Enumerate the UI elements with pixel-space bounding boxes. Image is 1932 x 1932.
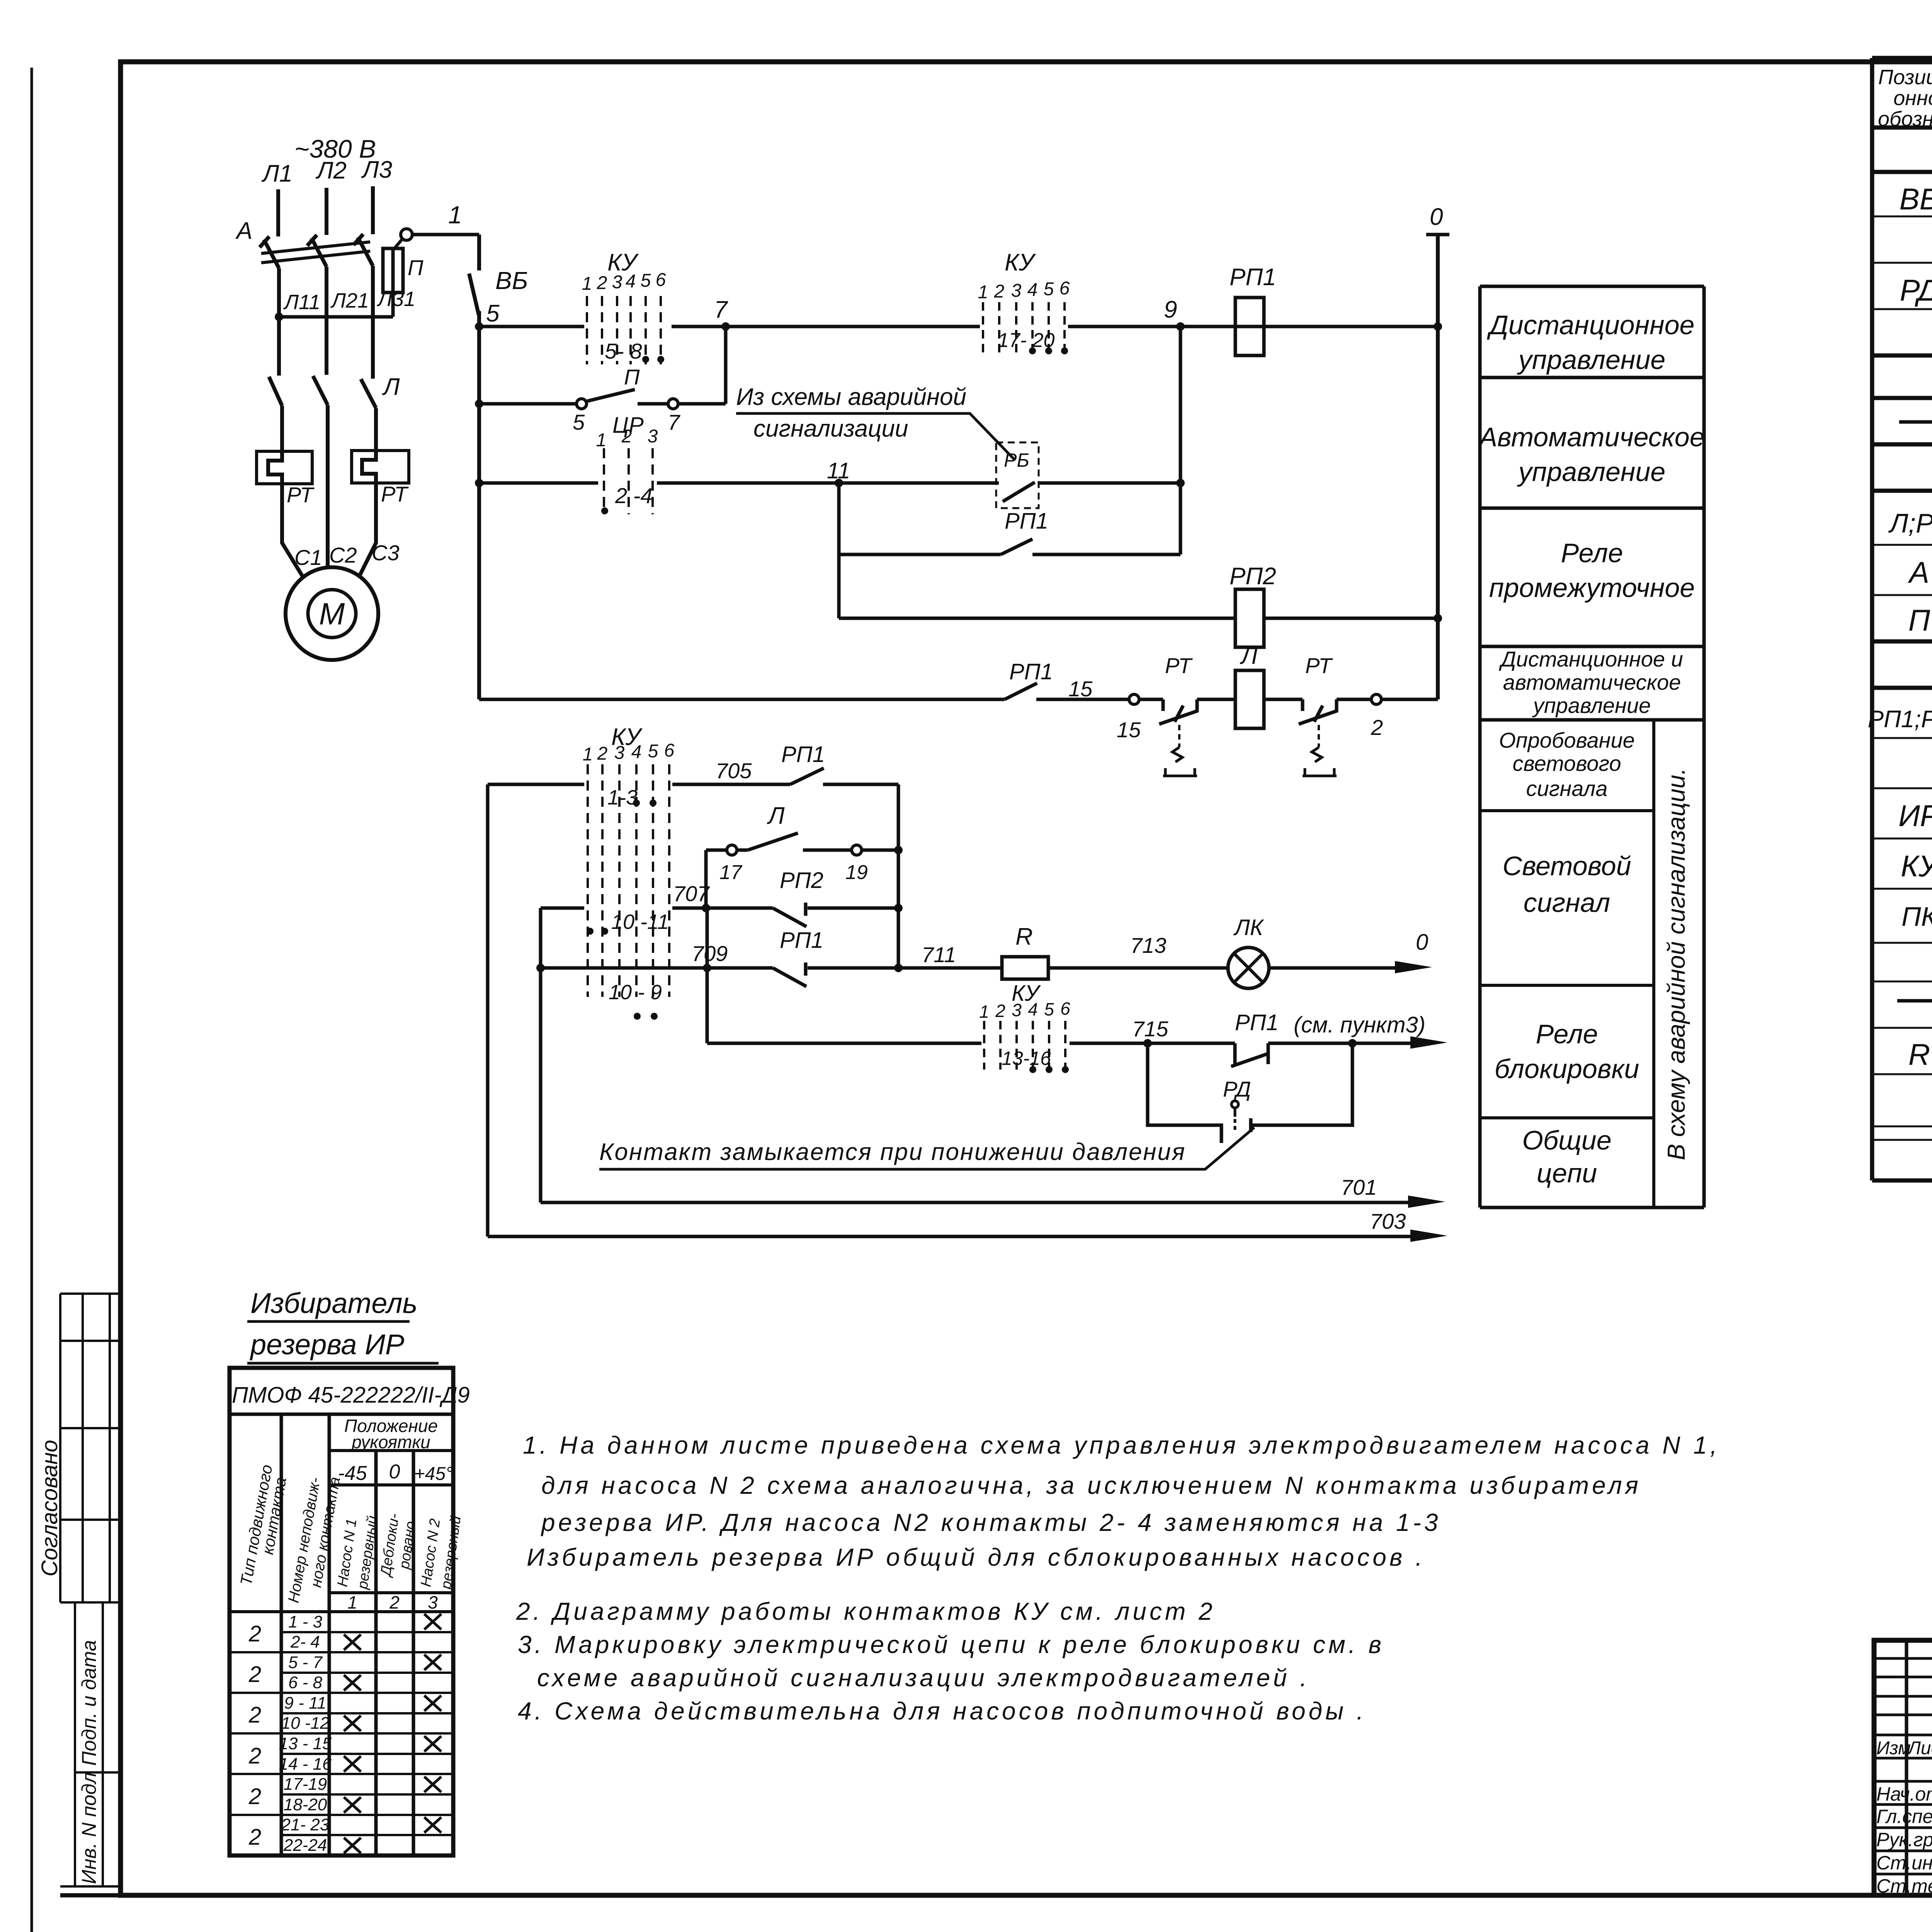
svg-text:6: 6: [1060, 278, 1070, 299]
svg-text:1: 1: [448, 201, 462, 229]
svg-text:ВБ: ВБ: [495, 267, 528, 294]
svg-text:Избиратель: Избиратель: [250, 1287, 418, 1319]
svg-text:0: 0: [1430, 204, 1443, 230]
svg-text:РТ: РТ: [1165, 653, 1193, 678]
svg-text:А: А: [1908, 555, 1929, 589]
svg-text:А: А: [235, 218, 252, 244]
RP1 selfhold row: [839, 553, 1180, 556]
node row1 right: [1434, 322, 1442, 331]
svg-text:(см. пункт3): (см. пункт3): [1294, 1012, 1425, 1037]
svg-text:РП2: РП2: [1230, 563, 1276, 590]
svg-text:Л2: Л2: [315, 157, 347, 184]
svg-text:709: 709: [692, 941, 728, 966]
svg-text:резерва ИР. Для насоса N2: резерва ИР. Для насоса N2 контакты 2- 4 …: [541, 1509, 1441, 1536]
svg-text:2: 2: [597, 743, 608, 764]
function label column: [1480, 286, 1704, 1207]
svg-text:6: 6: [1060, 998, 1070, 1019]
RP2 coil row: [839, 617, 1438, 620]
svg-text:3: 3: [612, 272, 622, 293]
svg-text:КУ: КУ: [1901, 849, 1932, 883]
svg-text:2: 2: [1371, 715, 1383, 740]
svg-text:4. Схема действительна для: 4. Схема действительна для насосов подпи…: [518, 1697, 1367, 1725]
svg-text:15: 15: [1068, 677, 1093, 701]
wires below contactor: [282, 405, 376, 567]
svg-text:5: 5: [648, 741, 658, 762]
svg-text:2: 2: [389, 1592, 400, 1612]
node L11: [275, 313, 283, 321]
svg-text:РД: РД: [1900, 273, 1932, 307]
svg-text:3. Маркировку электрической: 3. Маркировку электрической цепи к реле …: [518, 1631, 1384, 1658]
svg-text:Избиратель резерва ИР общий: Избиратель резерва ИР общий для сблокиро…: [527, 1543, 1425, 1571]
IR selector table grid: [230, 1368, 453, 1855]
wire to VB: [412, 233, 479, 236]
svg-text:703: 703: [1370, 1209, 1406, 1233]
motor M: [286, 567, 378, 660]
svg-text:3: 3: [1011, 281, 1022, 301]
svg-text:705: 705: [716, 759, 752, 783]
left margin: soglasovano grid: [60, 1294, 121, 1602]
svg-text:1: 1: [978, 282, 988, 303]
RP1 contact in 705 row: [790, 768, 824, 784]
left vertical bus 1: [486, 784, 490, 1236]
wire row 715: [707, 1042, 1414, 1045]
wire row3 (CR): [479, 481, 1180, 485]
svg-text:1: 1: [582, 274, 592, 294]
thermal element RT 1: [257, 451, 312, 484]
svg-text:ИР: ИР: [1898, 799, 1932, 833]
svg-text:Согласовано: Согласовано: [37, 1440, 62, 1577]
contactor L blades: [269, 376, 376, 408]
L contact blade: [748, 833, 798, 850]
svg-text:Световой: Световой: [1502, 851, 1631, 881]
L/RT control row: [479, 698, 1235, 701]
svg-text:Дистанционное: Дистанционное: [1487, 310, 1695, 340]
svg-text:7: 7: [714, 296, 728, 323]
svg-text:2- 4: 2- 4: [290, 1633, 320, 1651]
title block grid: [1874, 1640, 1932, 1897]
svg-text:П: П: [1908, 603, 1930, 637]
svg-text:5: 5: [641, 270, 651, 291]
svg-text:+45°: +45°: [414, 1464, 453, 1484]
svg-text:17: 17: [719, 861, 743, 884]
svg-text:1: 1: [583, 744, 593, 765]
wire row1: [479, 325, 1438, 328]
svg-text:Ст.техн.: Ст.техн.: [1876, 1875, 1932, 1897]
svg-text:9 - 11: 9 - 11: [284, 1694, 326, 1713]
svg-text:2: 2: [248, 1662, 261, 1687]
svg-text:управление: управление: [1517, 457, 1665, 487]
svg-text:6 - 8: 6 - 8: [288, 1673, 323, 1692]
svg-text:2: 2: [248, 1702, 261, 1728]
svg-text:4: 4: [631, 742, 642, 762]
svg-text:автоматическое: автоматическое: [1503, 670, 1681, 694]
svg-text:5 - 7: 5 - 7: [288, 1653, 323, 1672]
svg-text:РТ: РТ: [287, 483, 315, 507]
wire to 0 arrow: [1269, 966, 1403, 970]
svg-text:ВБ: ВБ: [1900, 182, 1932, 216]
svg-text:2. Диаграмму работы контакто: 2. Диаграмму работы контактов КУ см. лис…: [516, 1597, 1216, 1625]
terminal circle 1: [401, 229, 412, 240]
svg-text:РП1: РП1: [780, 928, 823, 953]
svg-text:17- 20: 17- 20: [998, 329, 1055, 352]
svg-text:Л11: Л11: [283, 291, 320, 314]
svg-text:Л: Л: [382, 374, 400, 400]
svg-text:13-16: 13-16: [1002, 1048, 1051, 1069]
svg-text:Опробование: Опробование: [1499, 728, 1635, 752]
svg-text:1: 1: [347, 1592, 357, 1612]
svg-text:С2: С2: [329, 543, 357, 567]
svg-text:715: 715: [1132, 1017, 1168, 1041]
svg-text:ПК: ПК: [1901, 901, 1932, 932]
svg-text:С1: С1: [294, 545, 322, 570]
svg-text:1 - 3: 1 - 3: [288, 1612, 323, 1631]
svg-text:17-19: 17-19: [284, 1775, 327, 1794]
RP1 break contact in 709 row: [773, 963, 806, 986]
svg-text:5: 5: [573, 410, 585, 434]
svg-text:РТ: РТ: [1305, 653, 1333, 678]
svg-text:701: 701: [1341, 1175, 1377, 1199]
svg-text:7: 7: [668, 410, 680, 434]
node 5: [475, 322, 483, 331]
svg-text:РП1: РП1: [1230, 264, 1276, 291]
svg-text:3: 3: [648, 426, 658, 447]
svg-text:РП1: РП1: [1235, 1010, 1279, 1035]
svg-text:2: 2: [995, 1001, 1005, 1021]
wire row 703: [488, 1235, 1413, 1238]
svg-text:Контакт замыкается при пониж: Контакт замыкается при понижении давлени…: [599, 1139, 1186, 1165]
svg-text:рукоятки: рукоятки: [351, 1432, 430, 1452]
svg-text:713: 713: [1130, 933, 1166, 957]
svg-text:В схему аварийной сигнализации: В схему аварийной сигнализации.: [1662, 768, 1690, 1160]
svg-text:10 - 9: 10 - 9: [609, 981, 662, 1004]
svg-text:схеме аварийной сигнализации: схеме аварийной сигнализации электродвиг…: [537, 1664, 1310, 1692]
svg-text:2: 2: [248, 1743, 261, 1769]
node on vertical 9: [1176, 479, 1185, 487]
svg-text:промежуточное: промежуточное: [1489, 573, 1695, 603]
contact P blade: [587, 389, 635, 401]
left margin: inv/podp block: [60, 1602, 121, 1895]
svg-text:14 - 16: 14 - 16: [279, 1755, 332, 1774]
svg-text:13 - 15: 13 - 15: [279, 1734, 332, 1753]
svg-text:Дистанционное и: Дистанционное и: [1498, 647, 1683, 671]
svg-text:Лист.: Лист.: [1907, 1738, 1932, 1759]
svg-text:5- 8: 5- 8: [605, 339, 642, 363]
fuse P: [391, 247, 395, 317]
svg-text:707: 707: [673, 881, 710, 906]
svg-text:Л21: Л21: [330, 289, 369, 312]
svg-text:РБ: РБ: [1004, 449, 1029, 471]
svg-text:2: 2: [597, 273, 607, 293]
svg-text:управление: управление: [1532, 693, 1651, 718]
svg-text:сигнализации: сигнализации: [753, 415, 908, 442]
wire row 707: [541, 906, 898, 910]
svg-text:6: 6: [656, 270, 666, 290]
svg-text:резерва ИР: резерва ИР: [250, 1328, 404, 1361]
wire row L 17-19: [706, 849, 898, 852]
svg-text:1-3: 1-3: [607, 786, 638, 809]
svg-text:П: П: [408, 255, 423, 280]
svg-text:10 -11: 10 -11: [611, 910, 669, 934]
wires to motor: [282, 483, 376, 579]
svg-text:Л: Л: [767, 803, 785, 829]
svg-text:Автоматическое: Автоматическое: [1478, 422, 1704, 452]
svg-text:2: 2: [994, 281, 1005, 302]
svg-text:2: 2: [248, 1621, 261, 1646]
svg-text:РП1;РП2: РП1;РП2: [1868, 706, 1932, 733]
svg-text:РД: РД: [1223, 1077, 1251, 1101]
svg-text:Нач.отд: Нач.отд: [1876, 1783, 1932, 1805]
svg-text:Позици-: Позици-: [1878, 66, 1932, 89]
svg-text:Л;РТ: Л;РТ: [1888, 508, 1932, 538]
svg-text:5: 5: [1044, 279, 1054, 299]
svg-text:С3: С3: [372, 541, 400, 565]
svg-text:2: 2: [621, 426, 632, 447]
svg-text:9: 9: [1164, 296, 1177, 323]
svg-text:управление: управление: [1517, 345, 1665, 375]
terminal circle 2: [1371, 694, 1381, 704]
wire row 701: [541, 1201, 1410, 1204]
svg-text:0: 0: [389, 1461, 400, 1483]
relay RB contact (dashed box): [996, 442, 1039, 508]
svg-text:сигнала: сигнала: [1526, 776, 1608, 801]
svg-text:РП1: РП1: [781, 742, 825, 767]
svg-text:РТ: РТ: [381, 482, 409, 506]
svg-text:цепи: цепи: [1537, 1158, 1597, 1188]
svg-text:21- 23: 21- 23: [281, 1815, 330, 1834]
terminal circle 15: [1129, 694, 1139, 704]
svg-text:онное: онное: [1893, 87, 1932, 110]
svg-text:Инв. N подл: Инв. N подл: [78, 1772, 100, 1884]
svg-text:Реле: Реле: [1561, 538, 1623, 568]
svg-text:711: 711: [922, 942, 956, 967]
svg-text:18-20: 18-20: [284, 1795, 327, 1814]
svg-text:1. На данном листе приведен: 1. На данном листе приведена схема управ…: [523, 1431, 1720, 1459]
svg-text:0: 0: [1416, 930, 1428, 955]
svg-text:Из схемы аварийной: Из схемы аварийной: [736, 384, 966, 410]
svg-text:15: 15: [1117, 718, 1141, 742]
svg-text:Реле: Реле: [1536, 1019, 1598, 1049]
right specification table grid: [1872, 58, 1932, 1180]
RD bypass branch: [1148, 1043, 1221, 1143]
svg-text:блокировки: блокировки: [1495, 1054, 1639, 1084]
svg-text:ПМОФ 45-222222/II-Д9: ПМОФ 45-222222/II-Д9: [232, 1383, 470, 1408]
left vertical bus 2: [539, 908, 543, 1202]
svg-text:Л1: Л1: [261, 160, 293, 187]
svg-text:РП1: РП1: [1005, 509, 1048, 534]
right vertical of 705 loop: [897, 784, 900, 968]
wire row2 (P contact): [479, 402, 726, 406]
svg-text:1: 1: [596, 430, 607, 451]
svg-text:4: 4: [1028, 999, 1038, 1019]
node row2: [475, 400, 483, 408]
svg-text:5: 5: [1044, 999, 1054, 1019]
svg-text:Изм: Изм: [1876, 1738, 1911, 1759]
svg-text:РП1: РП1: [1009, 659, 1053, 684]
svg-text:2 -4: 2 -4: [615, 483, 653, 508]
svg-text:П: П: [624, 365, 640, 389]
svg-text:Рук.гр.: Рук.гр.: [1876, 1829, 1932, 1850]
svg-text:для насоса N 2 схема анало: для насоса N 2 схема аналогична, за искл…: [541, 1471, 1641, 1499]
svg-text:Подп. и дата: Подп. и дата: [78, 1640, 100, 1766]
RP2 break contact: [773, 903, 806, 927]
vertical 707-715: [706, 908, 709, 1043]
svg-text:светового: светового: [1513, 751, 1621, 776]
svg-text:19: 19: [845, 861, 868, 884]
breaker A crossbar: [261, 242, 370, 263]
svg-text:22-24: 22-24: [283, 1836, 327, 1855]
svg-text:5: 5: [486, 300, 500, 327]
RP1 contact in L row: [1005, 683, 1037, 699]
svg-text:ЛК: ЛК: [1233, 915, 1264, 940]
svg-text:обознач.: обознач.: [1878, 107, 1932, 131]
svg-text:Гл.спец.: Гл.спец.: [1876, 1806, 1932, 1827]
wire: three phase stubs: [278, 186, 373, 236]
wire row 705: [488, 783, 898, 786]
wire L11-L31 to fuse: [279, 315, 393, 319]
svg-text:3: 3: [614, 743, 625, 763]
sheet outer thin left edge line: [31, 68, 33, 1932]
thermal element RT 2: [352, 451, 409, 483]
svg-text:4: 4: [1027, 280, 1038, 300]
svg-text:Л: Л: [1240, 643, 1258, 669]
svg-text:1: 1: [979, 1002, 989, 1022]
svg-text:РП2: РП2: [780, 868, 823, 893]
breaker A poles: [260, 234, 373, 268]
svg-text:4: 4: [626, 271, 636, 292]
switch VB: [477, 235, 481, 270]
svg-text:R: R: [1908, 1037, 1930, 1071]
wire row 709 / 711: [541, 966, 1228, 970]
main control bus: [477, 311, 481, 699]
svg-text:сигнал: сигнал: [1524, 888, 1611, 918]
svg-text:6: 6: [664, 740, 675, 761]
svg-text:М: М: [319, 597, 345, 631]
svg-text:R: R: [1015, 923, 1033, 950]
svg-text:2: 2: [248, 1784, 261, 1809]
svg-text:3: 3: [428, 1592, 438, 1612]
svg-text:КУ: КУ: [1005, 249, 1036, 276]
wire: poles below breaker: [279, 266, 373, 379]
node row3: [475, 479, 483, 487]
svg-text:2: 2: [248, 1825, 261, 1850]
svg-text:10 -12: 10 -12: [281, 1714, 330, 1733]
svg-text:Ст.инж.: Ст.инж.: [1876, 1852, 1932, 1874]
svg-text:Л3: Л3: [361, 156, 392, 183]
svg-text:Общие: Общие: [1522, 1125, 1611, 1155]
svg-text:3: 3: [1012, 1000, 1022, 1020]
